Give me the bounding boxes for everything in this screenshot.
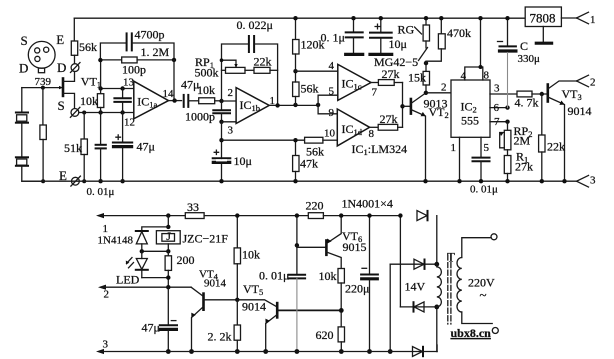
op-amp IC1d [337, 109, 369, 146]
node output/56k [293, 103, 297, 107]
node rail 470k [439, 16, 443, 20]
wire pin4 [296, 70, 338, 72]
svg-text:4. 7k: 4. 7k [515, 96, 539, 110]
node MG [424, 61, 428, 65]
wire pin2 [222, 100, 237, 102]
op-amp IC1c [338, 64, 371, 100]
capacitor 4700p [100, 33, 174, 60]
diode 1N4148 [136, 231, 148, 251]
svg-text:9015: 9015 [343, 240, 367, 254]
svg-text:27k: 27k [380, 112, 398, 126]
svg-text:7808: 7808 [530, 11, 556, 26]
svg-text:14V: 14V [405, 280, 426, 294]
node RP1 top rail tie [220, 58, 224, 62]
svg-text:5: 5 [484, 142, 490, 154]
wire pin5 [318, 95, 338, 105]
wire diode-relay bottom [142, 250, 169, 252]
svg-text:9014: 9014 [204, 278, 227, 290]
node 10u ground [219, 179, 223, 183]
terminal 1 line (lower) [96, 213, 185, 218]
svg-text:1: 1 [103, 223, 109, 235]
svg-text:0. 1μ: 0. 1μ [321, 31, 345, 45]
svg-text:10k: 10k [80, 94, 98, 108]
resistor 27k (IC1d out) [370, 124, 403, 130]
svg-text:9014: 9014 [568, 104, 592, 118]
svg-text:2: 2 [228, 87, 234, 99]
node pin1 ground [457, 179, 461, 183]
svg-text:22k: 22k [547, 140, 565, 154]
resistor 200 [165, 251, 171, 287]
resistor 22k (VT3) [539, 94, 545, 181]
resistor (gate leak) [40, 88, 46, 182]
resistor 470k [426, 18, 445, 63]
node secondary top [434, 262, 439, 267]
transistor VT5 [237, 300, 341, 352]
wire primary top lead [462, 238, 491, 258]
capacitor 1000p [213, 101, 230, 122]
svg-text:7: 7 [494, 116, 500, 128]
capacitor 100p [114, 89, 130, 113]
wire diode top [142, 227, 169, 231]
svg-text:2. 2k: 2. 2k [208, 330, 232, 344]
node bridge bottom left [388, 349, 393, 354]
svg-text:620: 620 [316, 328, 334, 342]
node cap ground [98, 179, 102, 183]
svg-text:1. 2M: 1. 2M [141, 45, 170, 59]
node rail C [505, 16, 509, 20]
svg-text:3: 3 [228, 125, 234, 137]
diode LED [126, 251, 148, 277]
node line1 relay [166, 213, 170, 217]
node line1 10k [235, 213, 239, 217]
transformer T primary winding [457, 258, 462, 312]
svg-text:51k: 51k [64, 141, 82, 155]
terminal primary top [491, 234, 497, 240]
svg-text:0. 01μ: 0. 01μ [87, 186, 115, 198]
node 620 rail [339, 349, 344, 354]
wire VT2 base column [402, 83, 404, 128]
resistor 47k [293, 140, 299, 181]
resistor 4.7k [517, 91, 548, 97]
svg-text:0. 01μ: 0. 01μ [259, 269, 289, 283]
svg-text:100p: 100p [122, 63, 146, 77]
resistor 1.2M [100, 57, 174, 63]
svg-text:3: 3 [494, 83, 500, 95]
svg-text:47μ: 47μ [142, 321, 160, 335]
svg-text:LED: LED [116, 273, 140, 287]
svg-text:2M: 2M [514, 134, 531, 148]
node 1.2M right [172, 58, 176, 62]
top power rail [74, 17, 525, 19]
resistor 120k [293, 18, 299, 71]
node pin5 ground [479, 179, 483, 183]
node VT4 emitter rail [189, 349, 194, 354]
capacitor 0.1u [346, 18, 363, 54]
node: gate resistor to ground rail [41, 179, 45, 183]
node 51k ground [82, 179, 86, 183]
regulator 7808 [525, 7, 576, 43]
svg-text:ubx8.cn: ubx8.cn [451, 326, 492, 340]
wire: feedback right column [173, 60, 175, 101]
resistor 10k (lower left) [234, 216, 240, 300]
node 47k ground [293, 179, 297, 183]
node rail 0.1u [351, 16, 355, 20]
wire bridge right edge [436, 216, 438, 352]
node rail 120k [293, 16, 297, 20]
svg-text:330μ: 330μ [518, 53, 541, 65]
node VT2 emitter ground [423, 179, 427, 183]
node LED/200 [166, 275, 170, 279]
node relay top [166, 225, 170, 229]
node pin3 [219, 120, 223, 124]
node 220u rail [367, 349, 372, 354]
capacitor 10u (rail) [370, 18, 392, 54]
resistor 33 [185, 213, 308, 219]
svg-text:10k: 10k [242, 248, 260, 262]
terminal primary bottom [492, 328, 498, 334]
resistor 220 [308, 213, 400, 219]
terminal 3 (top) [577, 175, 589, 187]
node rail RG [424, 16, 428, 20]
capacitor 10u (IC1b ref) [213, 150, 231, 162]
wire: left column bottom to ground rail [22, 166, 43, 181]
svg-text:3: 3 [590, 175, 596, 187]
svg-text:500k: 500k [195, 66, 219, 80]
svg-text:~: ~ [480, 287, 487, 302]
wire: left column middle [21, 123, 23, 158]
resistor 10k (VT1 source) [97, 60, 103, 112]
jack E (circle with slash) [71, 176, 81, 186]
wire primary bottom lead [462, 312, 492, 324]
node diode bottom [140, 249, 144, 253]
svg-text:4700p: 4700p [135, 28, 165, 42]
capacitor 0.01u (pin5) [473, 137, 490, 181]
capacitor 47u (coupling) [184, 95, 199, 107]
svg-text:S: S [58, 98, 65, 113]
resistor 15k [423, 63, 429, 93]
node pin7 [505, 120, 509, 124]
svg-text:1: 1 [451, 142, 457, 154]
diode top (bridge) [417, 211, 428, 221]
resistor 620 [338, 327, 344, 352]
node pin13/100p [120, 86, 124, 90]
svg-text:1: 1 [590, 14, 596, 26]
node IC1a output [172, 98, 176, 102]
svg-text:J: J [166, 229, 171, 243]
node S line 51k [82, 111, 86, 115]
capacitor C 330u [498, 18, 516, 107]
resistor 2.2k [234, 300, 240, 352]
wire: S line [79, 112, 134, 114]
wire pin1 [459, 137, 461, 181]
wire pin3 [222, 121, 237, 123]
svg-text:470k: 470k [447, 26, 471, 40]
resistor 56k (drain load) [71, 41, 77, 55]
svg-text:2: 2 [590, 77, 596, 89]
node base line [235, 298, 239, 302]
svg-text:47k: 47k [300, 157, 318, 171]
node S line 10k [98, 110, 102, 114]
svg-text:15k: 15k [408, 71, 426, 85]
svg-text:27k: 27k [515, 160, 533, 174]
node VT2 collector pin2 [424, 91, 428, 95]
diode mid-upper (bridge) [414, 259, 425, 269]
node pin2 [219, 99, 223, 103]
node line1 220u [367, 213, 371, 217]
svg-text:S: S [21, 33, 28, 48]
wire: mid line y140 [222, 139, 305, 141]
diode mid-lower (bridge) [414, 302, 425, 312]
node: gate junction [41, 86, 45, 90]
svg-text:0. 022μ: 0. 022μ [237, 18, 273, 32]
transformer T secondary winding [437, 264, 442, 307]
bridge rectifier 1N4001x4 [390, 216, 437, 352]
svg-text:14: 14 [163, 88, 175, 100]
node output/feedback [275, 103, 279, 107]
feedback loop RP1/22k/0.022u [222, 36, 278, 105]
node pin13/10k [98, 86, 102, 90]
svg-text:C: C [520, 39, 528, 53]
svg-text:13: 13 [123, 77, 135, 89]
ground rail (top section) [22, 180, 577, 182]
resistor 51k [81, 113, 87, 182]
node 22k ground [540, 179, 544, 183]
jack S (circle with slash) [70, 107, 80, 117]
resistor R1 [504, 156, 511, 182]
transistor VT3 [548, 81, 577, 181]
wire: column to 10u and ground [221, 122, 223, 181]
capacitor 220u [361, 216, 378, 352]
node 0.01u rail [295, 349, 300, 354]
svg-text:22k: 22k [254, 55, 272, 69]
node output/pin5-9 tee [316, 103, 320, 107]
resistor 10k (VT6) [338, 269, 344, 327]
svg-text:5: 5 [329, 86, 335, 98]
node rail 10u [379, 16, 383, 20]
svg-text:6: 6 [494, 102, 500, 114]
svg-text:4: 4 [329, 60, 335, 72]
svg-text:E: E [56, 32, 64, 47]
terminal 2 line (lower) [98, 285, 191, 290]
svg-text:1N4148: 1N4148 [98, 235, 134, 247]
resistor RG (microphone) [419, 18, 430, 60]
node 47u rail [166, 349, 171, 354]
node 1.2M left [98, 58, 102, 62]
node bridge top [398, 213, 402, 217]
svg-text:JZC−21F: JZC−21F [183, 232, 229, 246]
capacitor 47u (lower) [160, 287, 177, 351]
svg-text:4: 4 [461, 70, 467, 82]
capacitor 0.01u (lower) [289, 216, 305, 352]
wire pin6 [490, 107, 508, 109]
node line1 0.01u [295, 213, 299, 217]
crystal jack lower [16, 157, 28, 166]
resistor 56k (pin10) [305, 137, 338, 143]
wire IC1b output [269, 104, 318, 106]
wire relay drop [167, 216, 169, 227]
node 47u ground [120, 179, 124, 183]
node 120k/56k pin4 [293, 69, 297, 73]
node pin6 [505, 105, 509, 109]
crystal jack upper [16, 113, 28, 123]
svg-text:56k: 56k [301, 82, 319, 96]
svg-text:9: 9 [329, 107, 335, 119]
node S line 47u [120, 110, 124, 114]
svg-text:220: 220 [306, 199, 324, 213]
svg-text:33: 33 [187, 200, 199, 214]
terminal 3 line (ground rail lower) [96, 345, 437, 354]
svg-text:10k: 10k [197, 83, 215, 97]
svg-text:10μ: 10μ [389, 37, 407, 51]
node relay bottom [166, 249, 170, 253]
arrow RG [415, 27, 422, 34]
wire pin7 [490, 121, 508, 123]
transformer core [448, 255, 451, 324]
IC2 555 box [451, 80, 490, 137]
node VT5 emitter rail [263, 349, 268, 354]
wire pin2 IC2 [426, 92, 451, 94]
wire LED bottom [142, 277, 169, 279]
wire pins 4 8 to rail [465, 18, 483, 80]
diode bottom (bridge) [413, 347, 424, 357]
node pin8 tee [479, 65, 483, 69]
node 140/56k47k [293, 138, 297, 142]
svg-text:D: D [19, 61, 28, 76]
svg-text:10: 10 [324, 128, 336, 140]
jack D (circle with slash) [71, 55, 81, 72]
wire: rail corner down to 56k [73, 18, 75, 41]
node 2.2k rail [235, 349, 240, 354]
svg-text:1000p: 1000p [185, 110, 215, 124]
node VT2 base [400, 104, 404, 108]
node VT5 collector 620 [339, 308, 344, 313]
svg-text:0. 01μ: 0. 01μ [470, 184, 498, 196]
node VT3 emitter ground [562, 179, 566, 183]
node rail IC2 [478, 16, 482, 20]
svg-text:8: 8 [369, 128, 375, 140]
wire: pin13 line [101, 88, 134, 90]
wire: left column [21, 88, 23, 113]
relay JZC-21F [156, 231, 180, 252]
svg-text:2: 2 [104, 289, 110, 301]
svg-text:555: 555 [461, 114, 479, 128]
potentiometer RP2 [500, 122, 511, 156]
wire pin3 [490, 93, 517, 95]
resistor 10k (coupling) [199, 98, 222, 104]
terminal 1 (top) [577, 12, 589, 24]
node R1 ground [505, 179, 509, 183]
mic connector 739 body [28, 41, 55, 72]
svg-text:47μ: 47μ [137, 140, 155, 154]
node secondary bottom [434, 305, 439, 310]
node 140 line left [219, 138, 223, 142]
svg-text:2: 2 [441, 82, 447, 94]
svg-text:MG42−5: MG42−5 [374, 55, 418, 69]
resistor 27k (IC1c out) [371, 80, 403, 86]
svg-text:1N4001×4: 1N4001×4 [342, 197, 393, 211]
terminal 2 (top) [577, 75, 589, 87]
svg-text:D: D [57, 60, 66, 75]
node line1 VT6 [339, 213, 343, 217]
node 4.7k VT3 [540, 92, 544, 96]
transistor VT2 [403, 93, 426, 181]
svg-text:9014: 9014 [242, 300, 266, 314]
wire pin9 [318, 105, 337, 114]
op-amp IC1b [236, 88, 269, 124]
node line2 47u [166, 285, 170, 289]
svg-text:10k: 10k [319, 269, 337, 283]
svg-text:RG: RG [398, 23, 415, 37]
node VT6 base tee [295, 243, 299, 247]
transistor VT1 (FET) [22, 72, 75, 109]
svg-text:27k: 27k [382, 67, 400, 81]
svg-text:7: 7 [372, 87, 378, 99]
capacitor 0.01u (left) [96, 113, 106, 182]
wire: IC1a output [169, 100, 182, 102]
svg-text:220μ: 220μ [345, 282, 369, 296]
capacitor 47u (input bypass) [113, 113, 132, 182]
svg-text:10μ: 10μ [234, 154, 252, 168]
svg-text:IC1:LM324: IC1:LM324 [352, 142, 408, 157]
resistor 56k (vertical) [293, 71, 299, 105]
transistor VT4 [191, 287, 237, 351]
svg-text:8: 8 [484, 70, 490, 82]
svg-text:3: 3 [103, 339, 109, 351]
svg-text:56k: 56k [79, 40, 97, 54]
transistor VT6 [297, 216, 341, 269]
op-amp IC1a [134, 81, 169, 119]
svg-text:200: 200 [177, 253, 195, 267]
